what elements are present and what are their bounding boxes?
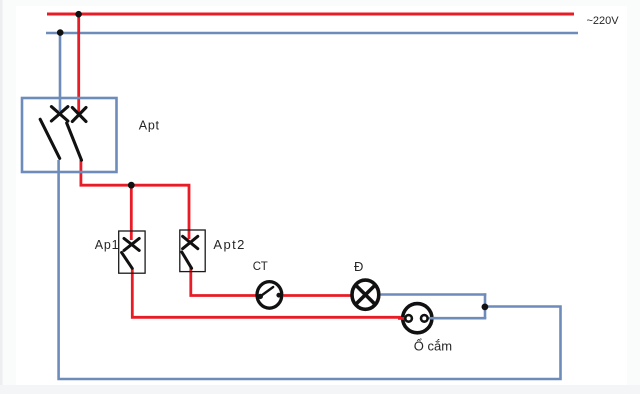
breaker Ap2 blade	[182, 252, 192, 268]
wire: blue neutral bus N	[46, 32, 578, 35]
breaker Apt box	[22, 98, 117, 172]
lamp D cross X	[355, 284, 376, 305]
switch CT right terminal dot	[276, 293, 281, 298]
wire: blue stub into socket	[427, 317, 436, 320]
junction dot red distribution node	[128, 182, 135, 189]
svg-text:Apt: Apt	[139, 119, 160, 133]
junction dot blue return node	[482, 304, 489, 311]
junction dot on red bus	[75, 11, 82, 18]
wire: red from CT to lamp	[284, 294, 351, 297]
svg-text:CT: CT	[253, 261, 268, 273]
svg-text:Đ: Đ	[354, 259, 363, 274]
switch CT circle	[257, 282, 282, 309]
lamp D circle	[352, 280, 379, 309]
svg-text:Apt2: Apt2	[213, 237, 245, 252]
breaker Apt pole 1 contact X	[51, 107, 68, 121]
socket right pin circle	[421, 315, 428, 322]
wire: red drop from bus to Apt	[77, 14, 80, 112]
switch CT left terminal dot	[258, 294, 263, 299]
breaker Apt pole 1 blade	[40, 119, 60, 158]
wire: blue drop from bus to Apt	[59, 33, 62, 111]
breaker Apt pole 2 contact X	[72, 108, 86, 122]
socket left pin circle	[405, 315, 412, 322]
breaker Ap1 contact X	[124, 238, 139, 250]
wire: blue from lamp to vertical	[381, 293, 487, 296]
breaker Apt pole 2 blade	[67, 123, 82, 160]
junction dot on blue bus	[57, 29, 64, 36]
wire: blue from socket to vertical	[434, 317, 487, 320]
wire: red inside Ap2 to X	[188, 231, 191, 239]
wire: blue vertical joining lamp and socket returns	[484, 293, 487, 318]
wire: red branch down to Ap1	[130, 185, 133, 240]
wire: red below Ap1 to socket line	[132, 268, 402, 317]
svg-text:Ổ cắm: Ổ cắm	[414, 339, 452, 354]
wire: blue below Apt down to bottom and around to right	[59, 160, 561, 379]
wire: red below Ap2 to switch CT	[191, 267, 256, 296]
socket O cam circle	[403, 304, 432, 333]
breaker Ap1 box	[119, 231, 145, 273]
switch CT lever	[260, 287, 273, 296]
wire: red live bus L	[47, 13, 574, 16]
breaker Ap2 contact X	[183, 236, 198, 248]
wire: red stub into socket	[398, 317, 406, 320]
breaker Ap2 box	[180, 230, 205, 272]
svg-text:~220V: ~220V	[587, 15, 620, 27]
breaker Ap1 blade	[122, 253, 133, 269]
svg-text:Ap1: Ap1	[95, 238, 120, 252]
wire: red from Apt blade down and right to Ap1/Ap2	[81, 160, 189, 231]
